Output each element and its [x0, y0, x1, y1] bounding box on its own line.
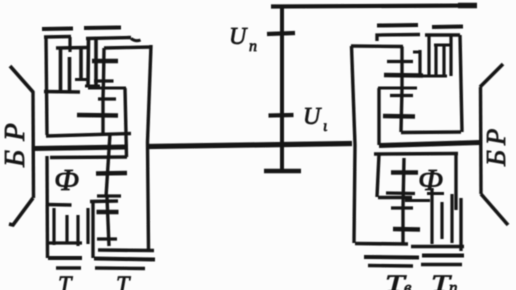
svg-text:БР: БР	[0, 114, 31, 168]
winding tooth 3 foot	[75, 78, 87, 81]
core dash left-upper A	[42, 27, 73, 32]
thick bus wire to BR bracket	[34, 147, 128, 149]
wire node line y88	[88, 86, 126, 89]
svg-text:в: в	[404, 278, 412, 290]
phase box right edge	[454, 154, 457, 210]
top supply wire	[271, 6, 477, 7]
wire node line y88 right	[378, 86, 417, 89]
svg-text:Ф: Ф	[54, 162, 79, 197]
phase box bottom left line	[46, 203, 72, 207]
core dash right-upper B	[432, 25, 463, 30]
transistor Q3 base bar	[96, 171, 127, 176]
svg-text:БР: БР	[481, 124, 511, 167]
right block bottom thick A	[364, 255, 419, 260]
bracket top diagonal right	[480, 64, 503, 87]
inner vertical continuing to sub-box	[377, 154, 379, 197]
right comb right edge	[460, 35, 462, 132]
transistor Q2 base bar	[77, 113, 118, 118]
transistor Q3 vertical	[106, 134, 110, 197]
winding tooth r2	[427, 35, 430, 76]
lower winding bottom connector	[48, 241, 82, 244]
winding bottom connector right	[420, 75, 447, 78]
core dash left-upper B	[84, 26, 121, 31]
lower winding tooth 1	[52, 208, 55, 245]
left block right edge vertical	[148, 45, 152, 249]
left block outer-left vertical lower	[45, 156, 49, 258]
transistor Q7 base bar	[391, 170, 418, 175]
main wire between blocks	[148, 144, 352, 147]
transistor Q5 base bar	[384, 73, 423, 78]
phase box bottom right piece	[90, 199, 118, 203]
transistor Q2 emitter plate	[98, 97, 116, 100]
bracket vertical	[31, 91, 35, 198]
lower winding tooth r1	[430, 188, 433, 244]
winding tooth 2b	[68, 57, 72, 92]
transistor Q4 emitter plate	[97, 237, 117, 240]
vertical wire x125 down to phase box	[125, 88, 127, 157]
core dash left-bottom A	[56, 266, 81, 269]
thick bus wire right	[379, 143, 480, 146]
bracket bottom diagonal right	[481, 194, 508, 225]
transistor column vertical	[103, 48, 104, 135]
transistor Q8 base bar	[393, 227, 420, 232]
battery column vertical	[280, 6, 284, 172]
battery tap bar 1	[267, 33, 295, 34]
bracket bottom diagonal	[9, 198, 33, 225]
right block left edge vertical	[352, 46, 356, 243]
winding tooth 4	[86, 39, 90, 87]
svg-text:T: T	[116, 273, 131, 290]
core dash right-upper A	[377, 23, 418, 28]
svg-text:U: U	[229, 24, 248, 50]
battery bottom bar	[264, 169, 301, 174]
transistor Q7 vertical	[403, 158, 404, 208]
winding tooth connector	[85, 85, 100, 88]
core dash right-bottom A	[368, 264, 413, 268]
bottom wire right	[98, 248, 154, 252]
transistor Q5 emitter plate	[387, 60, 413, 63]
winding tooth r1 top tick	[413, 51, 421, 54]
phase box Ф top line	[50, 155, 127, 159]
transistor Q8 vertical	[401, 208, 404, 243]
winding bottom line	[44, 90, 80, 94]
transistor column vertical right	[401, 47, 402, 133]
svg-text:п: п	[449, 278, 458, 290]
lower winding left connector	[405, 199, 430, 202]
lower winding tooth 3	[76, 215, 79, 246]
winding tooth r4	[442, 45, 445, 76]
right block bottom line B	[411, 245, 464, 249]
transistor Q3 emitter plate	[97, 194, 121, 197]
wire top corner to right edge	[104, 47, 152, 48]
lower sub-box left vertical	[91, 201, 94, 258]
phase box top right	[374, 152, 458, 156]
lower winding top connector right	[427, 192, 444, 195]
svg-text:U: U	[303, 104, 322, 130]
winding tooth 1	[59, 48, 63, 92]
left block bottom line B	[94, 259, 155, 260]
bracket vertical right	[479, 87, 483, 194]
bracket top diagonal	[10, 66, 33, 92]
lower winding right edge	[459, 198, 462, 251]
svg-text:п: п	[249, 38, 257, 55]
winding tooth r1	[418, 50, 421, 76]
transistor Q4 vertical	[107, 197, 109, 246]
left block outer-left vertical wire	[46, 37, 47, 136]
transformer T3 winding top line	[377, 35, 420, 42]
lower winding tooth 2	[65, 215, 68, 244]
winding tooth r3	[434, 45, 437, 76]
winding tooth r5	[449, 35, 452, 76]
lower winding tooth r3	[450, 194, 453, 243]
winding inner top line	[56, 46, 87, 50]
transistor Q6 emitter plate	[390, 94, 413, 97]
transformer T2 winding top line	[86, 38, 131, 39]
transistor Q8 emitter plate	[391, 206, 413, 209]
transformer T1 winding top line	[44, 35, 71, 39]
lower winding tooth r2	[440, 202, 443, 239]
upper box bottom line	[46, 134, 131, 137]
winding tooth 3	[79, 48, 83, 79]
transformer T4 winding top line	[425, 33, 460, 36]
right block top corner wire	[351, 44, 403, 48]
lower winding tooth 4	[86, 208, 89, 244]
battery tap bar 2	[269, 113, 294, 118]
core dash left-bottom B	[95, 266, 145, 270]
right block bottom thick B	[422, 254, 464, 258]
transistor Q1 emitter plate	[94, 79, 114, 82]
upper box bottom line right	[401, 130, 461, 134]
right block bottom line A	[355, 242, 408, 246]
transistor Q7 emitter plate	[386, 191, 415, 195]
winding tooth 2	[68, 37, 71, 52]
inner vertical wire x379	[377, 88, 380, 145]
transistor Q1 base bar	[92, 59, 118, 64]
transistor Q4 base bar	[97, 210, 119, 215]
svg-text:ι: ι	[323, 118, 327, 135]
core dash right-bottom B	[421, 263, 462, 266]
left block bottom line A	[48, 256, 82, 260]
transistor Q6 base bar	[383, 114, 415, 119]
squiggle end of winding line	[131, 39, 141, 41]
sub-box top line right	[378, 196, 412, 199]
winding tooth 5	[94, 39, 98, 87]
winding inner top connector right	[434, 44, 452, 47]
top supply wire end blob	[458, 3, 477, 9]
svg-text:T: T	[58, 273, 73, 290]
